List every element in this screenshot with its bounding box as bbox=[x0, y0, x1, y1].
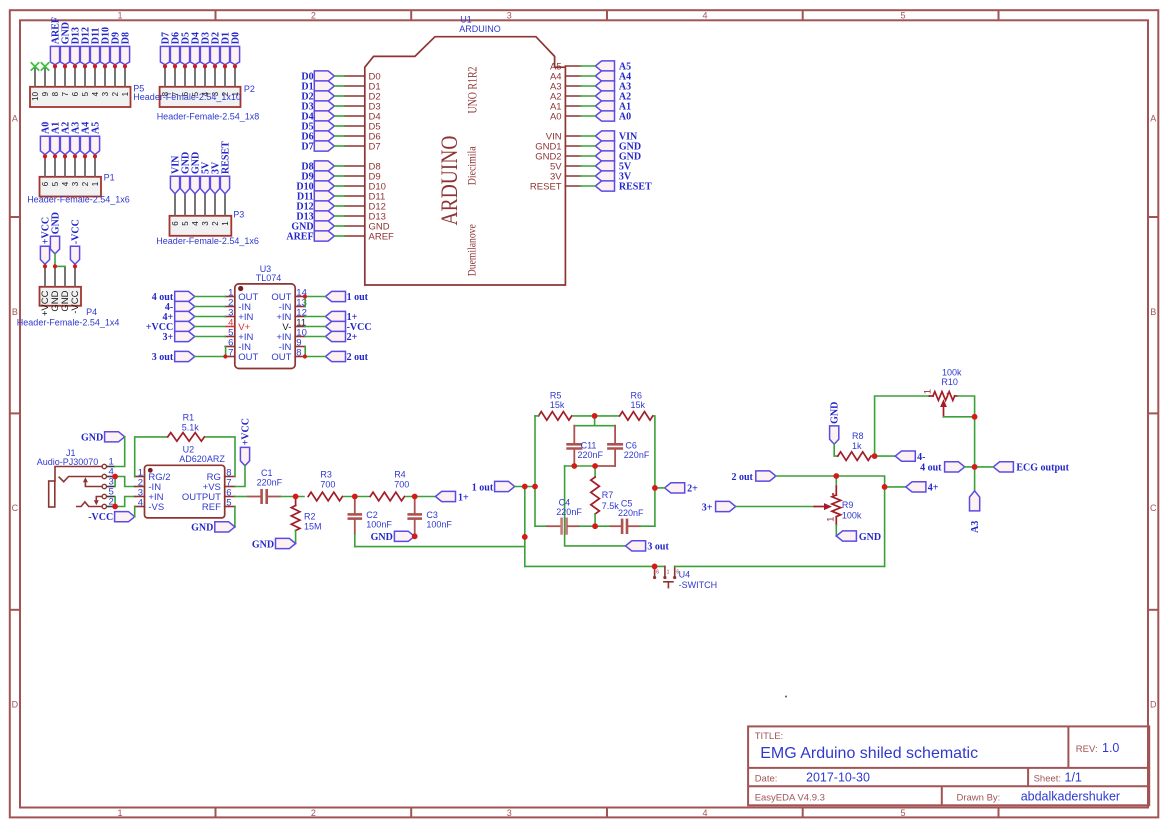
svg-text:4: 4 bbox=[702, 808, 707, 818]
net flag A4 (P1 pin 2) bbox=[80, 122, 91, 155]
net flag A2 (P1 pin 4) bbox=[60, 122, 71, 155]
junction C1/R2/R3 bbox=[293, 494, 299, 500]
net flag RESET (U1 right RESET) bbox=[595, 181, 652, 193]
svg-text:C2: C2 bbox=[366, 510, 378, 520]
svg-text:C: C bbox=[12, 503, 19, 513]
junction mid bbox=[522, 534, 528, 540]
wire U3 2 out bbox=[305, 356, 326, 358]
wire P4 pin 2 to pin 3 bbox=[55, 265, 65, 267]
svg-text:100nF: 100nF bbox=[426, 520, 452, 530]
net flag A2 (U1 right A2) bbox=[595, 91, 631, 103]
wire U1 D0 bbox=[334, 75, 344, 77]
net flag 3+ bbox=[702, 501, 736, 513]
wire U2 RG/2 to R1 bbox=[135, 437, 167, 477]
ground flag GND (R2) bbox=[252, 538, 296, 550]
wire U1 GND bbox=[334, 225, 344, 227]
power flag +VCC (P4 pin 1) bbox=[40, 217, 51, 264]
svg-text:Header-Female-2.54_1x6: Header-Female-2.54_1x6 bbox=[156, 236, 259, 246]
wire bus C4 to C5 bbox=[579, 525, 611, 527]
net flag AREF (P5 pin 8) bbox=[50, 17, 61, 65]
net flag 4 out (U3 left) bbox=[152, 291, 195, 303]
svg-text:1: 1 bbox=[923, 389, 934, 394]
svg-text:R1: R1 bbox=[183, 412, 195, 422]
wire C11 bottom node bbox=[565, 465, 596, 467]
svg-text:-VS: -VS bbox=[148, 502, 164, 513]
wire switch line left bbox=[525, 565, 665, 567]
potentiometer R9 100k bbox=[814, 476, 862, 525]
junction R4/C3 bbox=[412, 494, 418, 500]
net flag A5 (U1 right A5) bbox=[595, 61, 631, 73]
P1 pin wires bbox=[45, 156, 95, 176]
net flag D1 (U1 left) bbox=[301, 81, 334, 93]
net flag 1 out (U3 right) bbox=[325, 291, 368, 303]
svg-text:U1: U1 bbox=[460, 15, 472, 25]
svg-text:1: 1 bbox=[121, 91, 130, 96]
capacitor C3 100nF bbox=[407, 497, 452, 535]
junction P2 pin 4 bbox=[203, 64, 207, 68]
wire U1 D9 bbox=[334, 175, 344, 177]
svg-text:RESET: RESET bbox=[619, 182, 652, 193]
resistor R6 15k bbox=[620, 390, 653, 420]
header P3 (Header-Female-2.54_1x6) bbox=[156, 210, 259, 247]
svg-text:1: 1 bbox=[825, 517, 836, 522]
wire U3 +VCC bbox=[195, 326, 225, 328]
svg-text:6: 6 bbox=[656, 570, 659, 576]
junction P5 pin 8 bbox=[53, 64, 57, 68]
net flag VIN (P3 pin 6) bbox=[170, 155, 181, 194]
net flag A0 (U1 right A0) bbox=[595, 111, 631, 123]
svg-text:P2: P2 bbox=[244, 84, 255, 94]
net flag D13 (U1 left) bbox=[296, 211, 334, 223]
svg-text:D0: D0 bbox=[230, 32, 241, 44]
junction P1 pin 3 bbox=[73, 154, 77, 158]
P4 pin wires bbox=[45, 266, 75, 286]
junction P1 pin 4 bbox=[63, 154, 67, 158]
svg-text:A0: A0 bbox=[619, 112, 631, 123]
svg-text:7: 7 bbox=[61, 91, 70, 96]
svg-text:4: 4 bbox=[191, 221, 200, 226]
wire GND flag to P4 pin 2 bbox=[54, 254, 56, 267]
junction P2 pin 3 bbox=[213, 64, 217, 68]
svg-text:2: 2 bbox=[311, 11, 316, 21]
svg-text:-SWITCH: -SWITCH bbox=[679, 580, 718, 590]
svg-text:4: 4 bbox=[91, 91, 100, 96]
resistor R4 700 bbox=[370, 470, 409, 501]
svg-text:C6: C6 bbox=[625, 441, 637, 451]
wire U3 3+ bbox=[195, 336, 225, 338]
ic U2 AD620ARZ bbox=[135, 445, 235, 518]
junction P5 pin 2 bbox=[113, 64, 117, 68]
wire 2 out to R9 and down bbox=[776, 476, 885, 566]
net flag D12 (U1 left) bbox=[296, 201, 334, 213]
svg-text:ARDUINO: ARDUINO bbox=[459, 24, 501, 34]
net flag 1+ (filter input) bbox=[435, 491, 469, 503]
svg-text:TL074: TL074 bbox=[256, 273, 282, 283]
junction R7 bottom bbox=[592, 523, 598, 529]
net flag D0 (P2 pin 1) bbox=[230, 32, 241, 65]
svg-text:R7: R7 bbox=[602, 490, 614, 500]
resistor R2 15M bbox=[291, 497, 321, 532]
net flag D12 (P5 pin 5) bbox=[80, 27, 91, 65]
svg-text:Header-Female-2.54_1x6: Header-Female-2.54_1x6 bbox=[27, 195, 130, 205]
svg-text:Duemilanove: Duemilanove bbox=[464, 224, 478, 276]
wire U1 VIN bbox=[580, 135, 595, 137]
wire U3 2+ bbox=[305, 336, 326, 338]
svg-text:abdalkadershuker: abdalkadershuker bbox=[1021, 790, 1120, 804]
svg-text:220nF: 220nF bbox=[624, 450, 650, 460]
svg-text:ECG output: ECG output bbox=[1016, 463, 1069, 474]
wire U3 4+ bbox=[195, 316, 225, 318]
svg-text:4 out: 4 out bbox=[920, 463, 942, 474]
svg-text:220nF: 220nF bbox=[257, 477, 283, 487]
wire U1 A0 bbox=[580, 115, 595, 117]
net flag D6 (U1 left) bbox=[301, 131, 334, 143]
net flag A3 bbox=[970, 491, 982, 533]
svg-text:8: 8 bbox=[296, 348, 301, 359]
svg-text:TITLE:: TITLE: bbox=[755, 731, 784, 742]
net flag D11 (U1 left) bbox=[297, 191, 334, 203]
wire down to ECG node bbox=[974, 417, 976, 467]
svg-text:D7: D7 bbox=[369, 141, 381, 152]
svg-text:220nF: 220nF bbox=[618, 508, 644, 518]
svg-text:10: 10 bbox=[31, 91, 40, 100]
net flag GND (P3 pin 5) bbox=[180, 152, 191, 194]
wire U1 A3 bbox=[580, 85, 595, 87]
net flag 4+ (U3 left) bbox=[162, 311, 194, 323]
svg-text:C1: C1 bbox=[261, 468, 273, 478]
wire U1 D3 bbox=[334, 105, 344, 107]
svg-text:A: A bbox=[1150, 114, 1156, 124]
wire U1 D4 bbox=[334, 115, 344, 117]
net flag AREF (U1 left) bbox=[286, 231, 334, 243]
junction U3 pin7 bbox=[223, 354, 227, 358]
net flag D10 (U1 left) bbox=[296, 181, 334, 193]
svg-text:3: 3 bbox=[201, 221, 210, 226]
wire U3 3 out bbox=[195, 356, 225, 358]
svg-text:1: 1 bbox=[117, 11, 122, 21]
net flag A5 (P1 pin 1) bbox=[90, 122, 101, 155]
svg-text:B: B bbox=[1150, 307, 1156, 317]
junction 4+ bbox=[882, 484, 888, 490]
resistor R1 5.1k bbox=[168, 412, 205, 441]
capacitor C6 220nF bbox=[607, 426, 650, 466]
junction R7 top bbox=[592, 463, 598, 469]
svg-text:P3: P3 bbox=[233, 210, 244, 220]
junction 1 out bbox=[522, 484, 528, 490]
svg-text:2: 2 bbox=[311, 808, 316, 818]
svg-text:1: 1 bbox=[221, 221, 230, 226]
svg-text:5: 5 bbox=[81, 91, 90, 96]
net flag D3 (U1 left) bbox=[301, 101, 334, 113]
net flag 4- (U3 left) bbox=[165, 301, 195, 313]
net flag D3 (P2 pin 4) bbox=[200, 32, 211, 65]
wire J1 pin 4 to U2 -IN bbox=[115, 477, 135, 487]
svg-text:2: 2 bbox=[211, 221, 220, 226]
svg-text:5: 5 bbox=[181, 221, 190, 226]
svg-text:GND: GND bbox=[859, 532, 881, 543]
net flag A0 (P1 pin 6) bbox=[40, 122, 51, 155]
net flag 2+ bbox=[665, 483, 699, 495]
junction J1 pin 2 bbox=[112, 504, 118, 510]
wire 4 out to node bbox=[965, 466, 975, 468]
net flag D0 (U1 left) bbox=[301, 71, 334, 83]
capacitor C11 220nF bbox=[566, 426, 603, 466]
wire R9 to GND bbox=[835, 525, 837, 536]
svg-text:GND: GND bbox=[81, 432, 103, 443]
wire U1 D1 bbox=[334, 85, 344, 87]
wire U3 4 out bbox=[195, 296, 225, 298]
svg-text:R9: R9 bbox=[842, 500, 854, 510]
svg-text:Header-Female-2.54_1x10: Header-Female-2.54_1x10 bbox=[133, 92, 241, 102]
wire U1 D8 bbox=[334, 165, 344, 167]
svg-text:C4: C4 bbox=[559, 498, 571, 508]
wire node to ECG output bbox=[975, 466, 994, 468]
net flag D13 (P5 pin 6) bbox=[70, 27, 81, 65]
wire R10 right to wiper node bbox=[958, 396, 975, 417]
svg-text:P4: P4 bbox=[86, 307, 97, 317]
svg-text:3+: 3+ bbox=[702, 502, 713, 513]
net flag D8 (U1 left) bbox=[301, 161, 334, 173]
wire R2 to GND bbox=[295, 531, 297, 544]
junction P5 pin 6 bbox=[73, 64, 77, 68]
svg-text:GND: GND bbox=[371, 532, 393, 543]
ic U1 ARDUINO bbox=[365, 15, 566, 285]
svg-text:3+: 3+ bbox=[162, 332, 173, 343]
wire bus C5 to right vertical bbox=[640, 525, 655, 527]
header P4 (Header-Female-2.54_1x4) bbox=[17, 287, 120, 328]
net flag D2 (P2 pin 3) bbox=[210, 32, 221, 65]
svg-text:A3: A3 bbox=[970, 521, 981, 533]
wire U3 1 out bbox=[305, 296, 326, 298]
svg-text:220nF: 220nF bbox=[578, 450, 604, 460]
net flag A3 (P1 pin 3) bbox=[70, 122, 81, 155]
svg-text:6: 6 bbox=[171, 221, 180, 226]
svg-text:3: 3 bbox=[507, 808, 512, 818]
wire U1 A4 bbox=[580, 75, 595, 77]
net flag ECG output bbox=[993, 462, 1069, 474]
svg-text:A5: A5 bbox=[90, 122, 101, 134]
net flag 5V (U1 right 5V) bbox=[595, 161, 632, 173]
wire U1 D13 bbox=[334, 215, 344, 217]
net flag 3+ (U3 left) bbox=[162, 331, 194, 343]
svg-text:Date:: Date: bbox=[755, 773, 778, 784]
svg-text:R2: R2 bbox=[304, 512, 316, 522]
wire R5 to R6 bbox=[573, 415, 618, 417]
wire R1 to U2 RG bbox=[206, 437, 235, 477]
svg-text:R8: R8 bbox=[852, 431, 864, 441]
net flag D2 (U1 left) bbox=[301, 91, 334, 103]
wire J1 pin 3 to pin 4 bbox=[114, 477, 116, 487]
net flag D8 (P5 pin 1) bbox=[120, 32, 131, 65]
capacitor C4 220nF (highlighted) bbox=[547, 498, 582, 535]
junction R5/R6/C11 bbox=[592, 413, 598, 419]
header P5 reference labels (drawn over P2) bbox=[133, 84, 241, 102]
svg-text:B: B bbox=[12, 307, 18, 317]
svg-text:+VCC: +VCC bbox=[240, 418, 251, 445]
net flag 1+ (U3 right) bbox=[325, 311, 357, 323]
net flag D7 (P2 pin 8) bbox=[160, 32, 171, 65]
wire R3 to R4 bbox=[344, 496, 369, 498]
svg-text:15M: 15M bbox=[304, 521, 322, 531]
wire C11/C6 top loop bbox=[594, 416, 596, 426]
header P1 (Header-Female-2.54_1x6) bbox=[27, 173, 130, 205]
net flag D4 (P2 pin 5) bbox=[190, 32, 201, 65]
wire 3 out branch bbox=[565, 466, 626, 546]
net flag +VCC (U3 left) bbox=[146, 321, 195, 333]
svg-text:2: 2 bbox=[111, 91, 120, 96]
svg-text:2 out: 2 out bbox=[731, 472, 753, 483]
U1 right pins A5-A0 and VIN-RESET bbox=[530, 61, 580, 192]
svg-text:9: 9 bbox=[41, 91, 50, 96]
resistor R7 7.5k bbox=[591, 466, 620, 514]
net flag D11 (P5 pin 4) bbox=[90, 28, 101, 65]
svg-text:5: 5 bbox=[226, 498, 231, 509]
wire U1 D5 bbox=[334, 125, 344, 127]
svg-text:1 out: 1 out bbox=[472, 482, 494, 493]
svg-text:GND: GND bbox=[50, 212, 61, 234]
svg-text:OUT: OUT bbox=[238, 352, 258, 363]
net flag GND (U1 right GND1) bbox=[595, 141, 641, 153]
svg-text:1+: 1+ bbox=[458, 492, 469, 503]
power flag +VCC (U2 +VS) bbox=[240, 418, 251, 466]
power flag -VCC (U2 -VS) bbox=[88, 512, 135, 524]
junction 2+ bbox=[652, 485, 658, 491]
junction P2 pin 5 bbox=[193, 64, 197, 68]
svg-text:100nF: 100nF bbox=[366, 520, 392, 530]
resistor R3 700 bbox=[308, 470, 342, 501]
ground flag GND (U2 REF) bbox=[191, 522, 235, 534]
svg-text:ARDUINO: ARDUINO bbox=[437, 136, 462, 226]
wire U3 -VCC bbox=[305, 326, 326, 328]
junction P5 pin 5 bbox=[83, 64, 87, 68]
junction U3 pin14 bbox=[303, 294, 307, 298]
net flag D6 (P2 pin 7) bbox=[170, 32, 181, 65]
no-connect X on P5 pin 10 bbox=[31, 62, 39, 70]
net flag GND (P5 pin 7) bbox=[60, 22, 71, 65]
svg-text:C5: C5 bbox=[621, 499, 633, 509]
svg-text:1: 1 bbox=[117, 808, 122, 818]
svg-text:EasyEDA V4.9.3: EasyEDA V4.9.3 bbox=[755, 793, 825, 804]
op-amp U3 TL074 bbox=[225, 264, 307, 369]
junction C3/GND bbox=[412, 533, 418, 539]
svg-text:1: 1 bbox=[667, 570, 670, 576]
svg-text:C3: C3 bbox=[426, 510, 438, 520]
svg-text:8: 8 bbox=[51, 91, 60, 96]
svg-text:3: 3 bbox=[71, 181, 80, 186]
net flag D10 (P5 pin 3) bbox=[100, 27, 111, 65]
wire switch line right bbox=[675, 565, 885, 567]
wire U1 D10 bbox=[334, 185, 344, 187]
svg-text:A: A bbox=[12, 114, 18, 124]
junction P4 pin 2 bbox=[53, 264, 57, 268]
svg-text:-VCC: -VCC bbox=[70, 290, 81, 313]
svg-text:2 out: 2 out bbox=[347, 352, 369, 363]
svg-text:P1: P1 bbox=[104, 173, 115, 183]
resistor R5 15k bbox=[539, 390, 572, 420]
svg-text:R10: R10 bbox=[941, 377, 958, 387]
svg-text:4+: 4+ bbox=[928, 483, 939, 494]
net flag D9 (U1 left) bbox=[301, 171, 334, 183]
wire U3 1+ bbox=[305, 316, 326, 318]
svg-text:7.5k: 7.5k bbox=[602, 501, 620, 511]
net flag A1 (P1 pin 5) bbox=[50, 122, 61, 155]
wire J1 pin 2 to U2 +IN bbox=[115, 497, 135, 507]
svg-text:220nF: 220nF bbox=[556, 507, 582, 517]
wire U2 REF to GND bbox=[234, 507, 236, 527]
svg-text:AD620ARZ: AD620ARZ bbox=[179, 454, 225, 464]
junction P4 pin 1 bbox=[43, 264, 47, 268]
wire U3 pin9 to pin8 bbox=[304, 347, 306, 357]
capacitor C1 220nF bbox=[248, 468, 282, 504]
wire 1 out down to switch line bbox=[524, 487, 526, 567]
junction R3/R4/C2 bbox=[352, 494, 358, 500]
svg-text:6: 6 bbox=[41, 181, 50, 186]
svg-text:REV:: REV: bbox=[1076, 744, 1098, 755]
svg-text:700: 700 bbox=[320, 479, 335, 489]
P2 pin wires bbox=[165, 66, 235, 86]
svg-text:6: 6 bbox=[71, 91, 80, 96]
wire C2 to bus bbox=[354, 534, 356, 547]
wire R8 to 4- node bbox=[873, 455, 896, 457]
svg-text:2+: 2+ bbox=[347, 332, 358, 343]
svg-text:R3: R3 bbox=[320, 470, 332, 480]
wire node down to A3 bbox=[974, 467, 976, 491]
svg-text:R6: R6 bbox=[631, 390, 643, 400]
svg-text:1k: 1k bbox=[852, 441, 862, 451]
net flag 2 out (U3 right) bbox=[325, 351, 368, 363]
junction P5 pin 7 bbox=[63, 64, 67, 68]
no-connect X on P5 pin 9 bbox=[41, 62, 49, 70]
svg-text:5: 5 bbox=[900, 808, 905, 818]
wire GND to J1 pin 1 bbox=[115, 437, 125, 467]
junction R8/4- bbox=[872, 453, 878, 459]
svg-text:1: 1 bbox=[91, 181, 100, 186]
wire U1 3V bbox=[580, 175, 595, 177]
header P5 (Header-Female-2.54_1x10) bbox=[30, 87, 131, 107]
header P2 (Header-Female-2.54_1x8) bbox=[157, 84, 260, 121]
wire U2 OUTPUT to C1 bbox=[235, 496, 248, 498]
net flag D9 (P5 pin 2) bbox=[110, 32, 121, 65]
switch U4 -SWITCH bbox=[653, 566, 717, 589]
junction P1 pin 2 bbox=[83, 154, 87, 158]
junction U3 pin8 bbox=[303, 354, 307, 358]
svg-text:GND: GND bbox=[252, 539, 274, 550]
wire U1 D6 bbox=[334, 135, 344, 137]
net flag D1 (P2 pin 2) bbox=[220, 32, 231, 65]
wire filter left vertical bbox=[534, 416, 536, 526]
power flag -VCC (P4 pin 4) bbox=[70, 219, 81, 264]
svg-text:15k: 15k bbox=[550, 400, 565, 410]
svg-text:15k: 15k bbox=[631, 400, 646, 410]
net flag 5V (P3 pin 3) bbox=[200, 161, 211, 194]
wire 2+ branch bbox=[655, 487, 665, 489]
svg-text:5: 5 bbox=[51, 181, 60, 186]
junction P1 pin 6 bbox=[43, 154, 47, 158]
wire 4- node up to R10 bbox=[875, 396, 930, 456]
wire U1 RESET bbox=[580, 185, 595, 187]
net flag 3V (P3 pin 2) bbox=[210, 161, 221, 194]
junction P4 pin 4 bbox=[73, 264, 77, 268]
wire 4+ branch bbox=[885, 486, 906, 488]
svg-text:RESET: RESET bbox=[530, 181, 562, 192]
wire R5 left lead bbox=[535, 415, 539, 417]
svg-text:C: C bbox=[1150, 503, 1157, 513]
svg-text:AREF: AREF bbox=[286, 232, 313, 243]
svg-text:3: 3 bbox=[101, 91, 110, 96]
net flag A1 (U1 right A1) bbox=[595, 101, 631, 113]
junction P1 pin 5 bbox=[53, 154, 57, 158]
net flag 3 out bbox=[626, 541, 670, 553]
